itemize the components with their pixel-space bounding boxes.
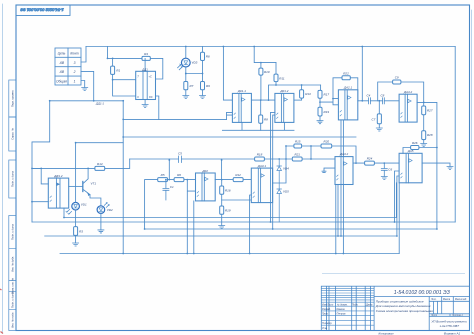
svg-text:з-да ПТК-ОВТ: з-да ПТК-ОВТ [439,324,460,328]
wire bus y217 [64,217,396,219]
svg-text:R7: R7 [190,84,194,88]
svg-text:№ докум.: № докум. [337,303,348,306]
svg-text:VT1: VT1 [91,182,97,186]
ground G3 [183,96,189,99]
wire DA2.1 feedback loop [333,78,358,101]
resistor R21 [292,157,302,161]
svg-text:C6: C6 [388,167,392,171]
svg-text:Конт: Конт [70,51,79,55]
resistor R12 [233,178,243,182]
wire DK2 out [215,179,251,181]
resistor R9 [202,90,204,96]
svg-text:Петров: Петров [337,313,347,316]
svg-text:Лист: Лист [430,314,437,317]
comparator DK1.2 [275,89,294,122]
svg-text:R17: R17 [324,92,330,96]
svg-text:R6: R6 [177,173,181,177]
svg-text:Общая: Общая [56,80,67,84]
svg-text:VD5: VD5 [283,190,289,194]
resistor R6b [174,178,184,182]
svg-text:Для измерения амплитуды движен: Для измерения амплитуды движения [375,304,431,308]
svg-text:R24: R24 [367,157,373,161]
svg-text:R27: R27 [427,109,433,113]
left margin column group 1 [9,80,16,151]
resistor R20 [321,144,332,148]
svg-text:Листов 1: Листов 1 [451,314,463,317]
svg-text:C4: C4 [367,94,371,98]
op-amp DD1 [136,58,156,99]
connector XS1 table [55,48,81,85]
svg-text:Масштаб: Масштаб [455,298,467,301]
wire mid bus [123,118,226,120]
svg-text:Иванов: Иванов [337,308,346,311]
svg-text:Схема электрическая принципиал: Схема электрическая принципиальная [376,309,433,313]
wire bias tap stair [254,47,276,63]
ground G12 [322,171,326,172]
left section columns [327,286,371,330]
wire pin1 [81,81,85,88]
wire DA5 loop [403,148,437,154]
wire LED drop [185,47,187,59]
svg-text:R19: R19 [225,209,231,213]
svg-text:R16: R16 [225,189,231,193]
svg-text:ДА3.2: ДА3.2 [339,152,349,156]
diode VD4 [277,159,282,189]
svg-text:1-54.0102 00.00.001 ЭЗ: 1-54.0102 00.00.001 ЭЗ [20,8,64,13]
wire VD1 bottom [75,210,77,243]
ground G2 [142,105,148,108]
wire DA4.2 out [417,102,437,228]
svg-text:ДД1-1: ДД1-1 [95,102,104,106]
svg-text:C1: C1 [170,185,174,189]
resistor R24 [365,161,375,165]
wire DA3.2 out [353,162,399,164]
wire node y100 [50,100,124,102]
wire DA3.1 bottom [250,195,252,254]
svg-text:Подп.: Подп. [352,303,359,306]
transistor VT1 [69,168,101,205]
svg-text:R28: R28 [427,133,433,137]
wire DA5 bottom pins [395,171,400,236]
svg-text:R11: R11 [279,76,285,80]
resistor R15 [294,144,302,148]
svg-text:Изм.Лист: Изм.Лист [322,303,333,306]
wire trunk T1 [122,101,124,254]
ground G11 [98,230,104,233]
ground G10 [73,243,79,246]
wire DK1.2 out [294,99,302,101]
wire collector R14 row [32,159,130,168]
svg-text:R19: R19 [324,110,330,114]
wire DD1 out [156,96,159,119]
LED VD1 [66,202,87,214]
svg-text:R9: R9 [206,84,210,88]
resistor R4 [142,56,150,60]
resistor R19 [318,107,322,116]
right section [429,297,469,331]
wire DA2.1 out caps [358,100,399,102]
wire DA5 out [422,163,450,166]
wire DA3.2 bottom drops [336,185,338,254]
wire trunk T2 [187,180,195,254]
stamp box top-left [16,5,70,16]
wire DA2.1 bottom drops [341,120,343,254]
wire DD1.2 in pins [32,168,48,201]
resistor R16 [221,180,223,206]
wire DD1.2 bottom [63,208,65,217]
capacitor C7 [377,114,381,124]
svg-text:3: 3 [74,61,76,65]
resistor R14 [95,166,105,170]
svg-text:Масса: Масса [443,298,451,301]
resistor R18 [255,157,265,161]
wire pin2 stair [81,71,94,100]
wire DA3.1 drops [271,137,273,229]
svg-text:C7: C7 [372,118,376,122]
svg-text:1-54.0102 00.00.001 ЭЗ: 1-54.0102 00.00.001 ЭЗ [394,290,451,296]
svg-text:Н.контр.: Н.контр. [322,322,332,325]
wire VD2 bottom [100,213,102,229]
resistor R19b [220,206,224,214]
op-amp DA3.2 [335,152,353,184]
svg-text:R22: R22 [343,72,349,76]
capacitor C6 [381,163,387,176]
wire pin3 to top bus [81,47,86,63]
LED VD2 [97,203,113,214]
ground G8 [376,128,382,131]
svg-text:Справ. №: Справ. № [10,128,14,140]
wire right bus drop [454,47,456,223]
org name [431,320,467,329]
resistor R22 [342,76,350,80]
op-amp DA2.1 [338,86,357,120]
capacitor C7 branch [378,101,380,128]
wire DD1 bottom [144,100,146,105]
svg-text:R1: R1 [116,69,120,73]
svg-text:ДК1.2: ДК1.2 [279,89,288,93]
svg-text:Взам. инв. №: Взам. инв. № [10,278,14,294]
svg-text:R6: R6 [206,55,210,59]
left margin column group 3 [9,216,16,331]
ground G6 [381,177,387,180]
svg-text:Инв. № дубл.: Инв. № дубл. [10,256,14,272]
wire oscillator loop top [108,47,163,80]
wire top bus [86,46,455,48]
svg-text:VD4: VD4 [283,167,289,171]
svg-text:Инв. № подл.: Инв. № подл. [10,312,14,328]
svg-text:ДА3.1: ДА3.1 [257,164,267,168]
wire DA3.1 out up [273,146,286,183]
svg-text:Подп. и дата: Подп. и дата [10,170,14,187]
resistor R1 [111,66,115,74]
ground G5b [219,226,225,229]
logic DD1.2 [48,174,68,208]
resistor R11 [275,63,277,85]
svg-text:Подп. и дата: Подп. и дата [10,291,14,308]
svg-text:ДК2: ДК2 [201,169,208,173]
svg-text:Подп. и дата: Подп. и дата [10,223,14,240]
capacitor C8 [383,98,385,104]
svg-text:2: 2 [73,70,76,74]
resistor R6 [202,47,204,82]
red scan artifacts [0,289,474,334]
wire divider to DA2.1 [320,99,338,105]
wire bus y236 [45,235,397,237]
resistor R13b [301,85,303,100]
ground G1 [82,88,88,91]
wire C9 loop [378,82,424,102]
wire feedback row y146 [286,146,356,163]
resistor R28 [422,131,426,140]
capacitor C9 [393,80,401,84]
op-amp DA4.2 [399,90,417,122]
wire R1 branch [113,58,136,96]
description cell text [375,300,433,313]
svg-text:С: С [137,96,139,99]
wire DA3.2 ref [324,168,335,171]
svg-text:R18: R18 [257,153,263,157]
svg-text:R8: R8 [264,117,268,121]
comparator DK2 [196,169,216,201]
svg-text:VD2: VD2 [107,208,113,212]
svg-text:R26: R26 [412,141,418,145]
wire DK1.1 out [251,99,275,101]
svg-text:C9: C9 [395,76,399,80]
svg-text:Пров.: Пров. [322,313,329,316]
wire long rail y159 [130,158,335,160]
wire bus y229 [145,228,437,230]
ground G4 [200,96,206,99]
diode VD5 [277,189,282,222]
svg-text:Перв. примен.: Перв. примен. [10,90,14,108]
wire R5 R6 row [145,180,196,229]
svg-text:C8: C8 [381,94,385,98]
op-amp DA3.1 [251,164,272,203]
resistor R7 [185,90,187,96]
svg-text:Формат A1: Формат A1 [444,332,461,335]
wire bus to DK1.1 [223,47,232,101]
resistor R8 [260,100,262,130]
svg-text:Разраб.: Разраб. [322,308,331,311]
left margin rotated texts [10,90,14,328]
wire DK1.1 in stubs [227,112,233,119]
wire VD1 top column [76,143,124,203]
ground G9 [421,144,427,147]
wire DK2 bottom [193,201,195,254]
resistor R27 [423,102,425,130]
svg-text:R21: R21 [294,153,300,157]
svg-text:R5: R5 [161,173,165,177]
svg-text:УП Витеб-ского ремонт.: УП Витеб-ского ремонт. [431,320,467,324]
svg-text:-6В: -6В [59,70,65,74]
svg-text:ОС: ОС [149,96,153,99]
resistor R5 [158,178,168,182]
svg-text:Дата: Дата [365,303,373,306]
svg-text:Утв.: Утв. [322,327,328,330]
svg-text:ДК1.1: ДК1.1 [237,89,246,93]
left section rows [321,288,374,325]
svg-text:1: 1 [74,80,76,84]
wire bus y130 [222,122,294,130]
resistor R10 [260,63,262,101]
wire DK1.2 lower pins [123,112,356,137]
svg-text:VD3: VD3 [192,61,198,65]
wire bus y222 [32,221,455,223]
resistor R26 [411,146,419,150]
svg-text:R14: R14 [97,162,103,166]
wire bias tap [361,47,363,101]
svg-text:R10: R10 [264,70,270,74]
svg-text:R15: R15 [295,140,301,144]
designation cell [374,286,469,330]
outer border right [471,10,473,333]
wire bus y253 [60,253,399,255]
wire VD3 bottom [186,67,203,82]
svg-text:R20: R20 [324,140,330,144]
wire drops right pair [396,183,399,254]
outer border left [2,4,4,333]
faint crease line [322,272,465,274]
photodiode VD3 [178,58,198,70]
capacitor C4 [369,98,371,104]
wire R17 chain [319,85,322,121]
svg-text:Лит.: Лит. [430,298,437,301]
title block [321,286,469,330]
svg-text:ДД1: ДД1 [141,67,148,71]
svg-text:ДА2.1: ДА2.1 [343,86,353,90]
svg-text:R13: R13 [305,92,311,96]
resistor R3 [74,227,78,236]
ground G5 [317,121,323,124]
svg-text:R4: R4 [144,52,148,56]
svg-text:R12: R12 [235,173,241,177]
svg-text:Приборы спортивные судейские: Приборы спортивные судейские [376,300,424,304]
capacitor C1 [163,180,169,200]
svg-text:ДД1.2: ДД1.2 [53,174,63,178]
svg-text:+С: +С [149,76,152,79]
capacitor C5 [178,156,181,163]
comparator DK1.1 [232,89,251,122]
svg-text:C5: C5 [178,152,182,156]
svg-text:-6В: -6В [59,61,65,65]
svg-text:Цепь: Цепь [58,51,66,55]
wire bias row y85 [269,85,321,100]
svg-text:ДА4.2: ДА4.2 [403,90,413,94]
ground G7 [447,167,453,170]
wire stair left [32,101,50,222]
resistor R17 [318,90,322,98]
svg-text:R3: R3 [79,229,83,233]
svg-text:VD1: VD1 [81,203,87,207]
op-amp DA5 [399,149,422,183]
left margin column group 2 [9,160,16,198]
wire C5 loop drops [169,159,221,180]
svg-text:Копировал: Копировал [379,332,394,335]
